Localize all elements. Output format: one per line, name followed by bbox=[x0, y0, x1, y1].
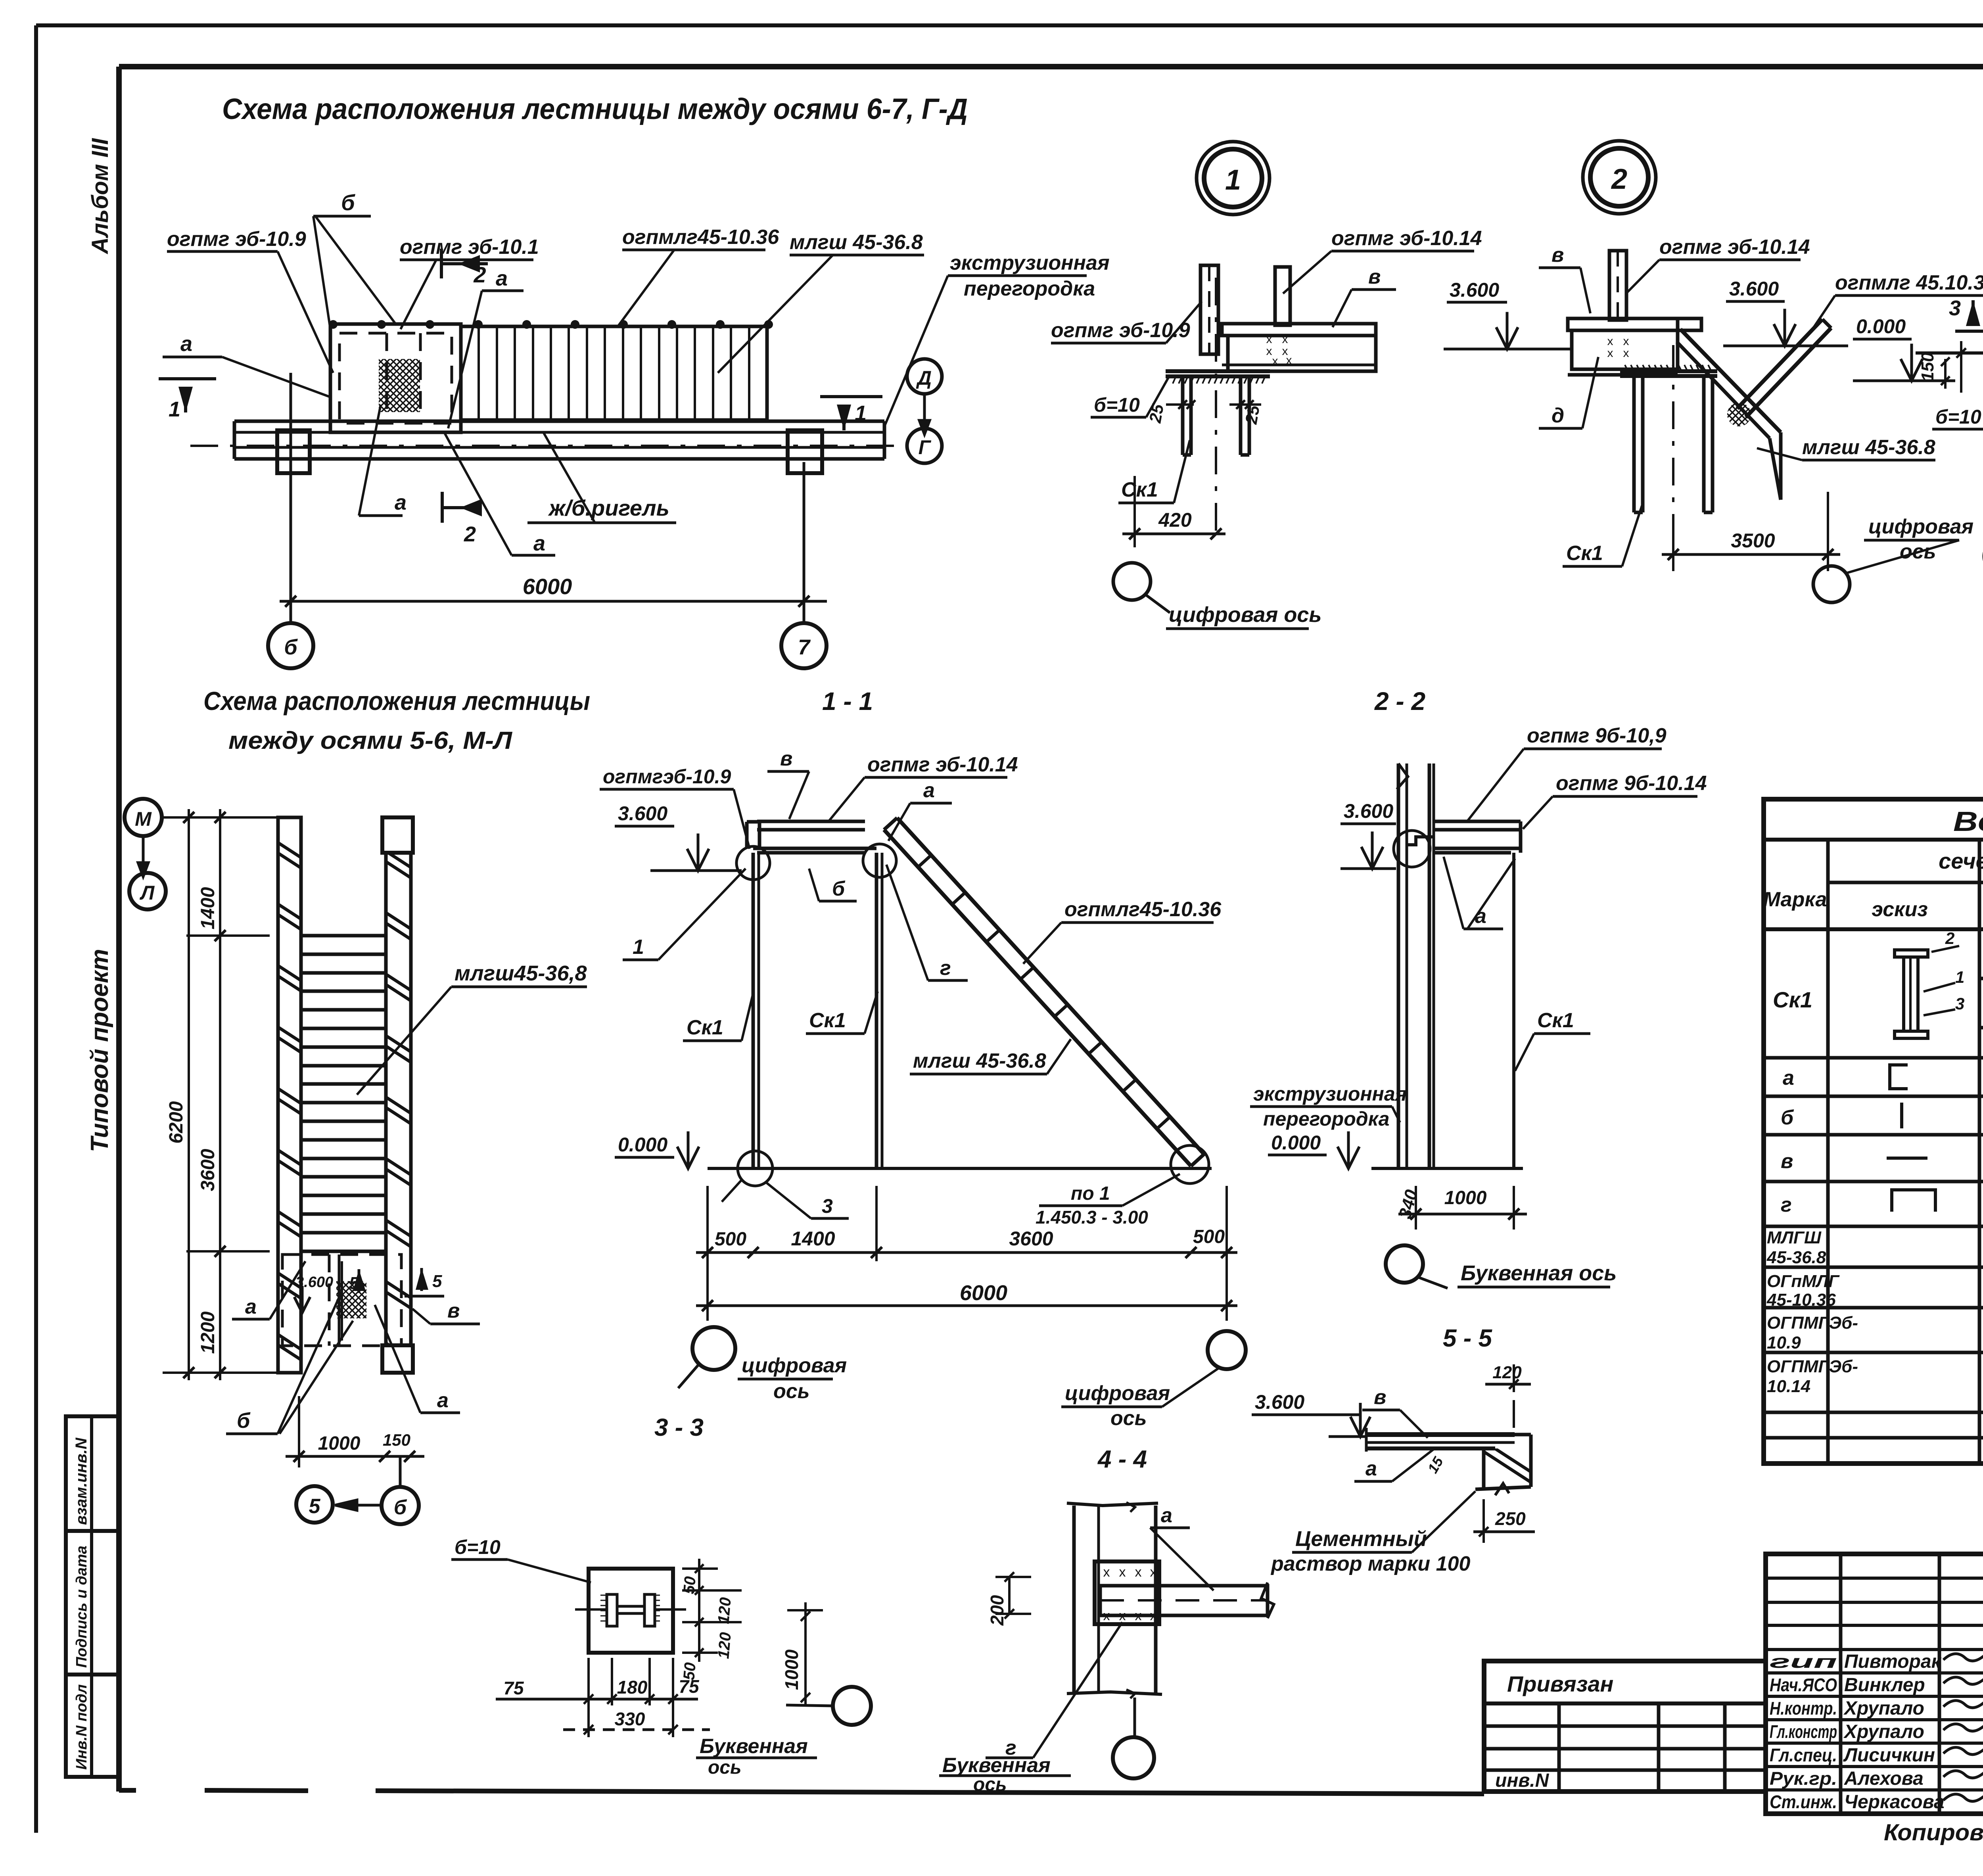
left plan: mini level 3.600 and mark 5 bbox=[294, 1269, 366, 1313]
svg-text:75: 75 bbox=[503, 1678, 524, 1698]
left plan: label b (bottom) bbox=[226, 1293, 353, 1434]
section 1-1: axis bubble left bbox=[678, 1327, 735, 1388]
svg-text:0.000: 0.000 bbox=[1856, 315, 1906, 338]
svg-text:Хрупало: Хрупало bbox=[1843, 1698, 1924, 1719]
plan 6-7: stair flight dashed box bbox=[330, 324, 461, 432]
section 2-2: dim 340/1000 bbox=[1395, 1186, 1527, 1230]
plan 6-7: label ogpmg eb-10.1 bbox=[400, 236, 539, 329]
svg-text:а: а bbox=[923, 779, 935, 802]
plan 6-7: cross-hatch patch bbox=[379, 359, 420, 412]
node 1: dim 420 bbox=[1122, 476, 1225, 547]
left plan: dim chain left (1400/3600/1200) bbox=[163, 809, 286, 1380]
svg-text:Лисичкин: Лисичкин bbox=[1843, 1745, 1935, 1766]
node 2: label mlgsh 45-36.8 bbox=[1757, 436, 1935, 460]
svg-text:в: в bbox=[780, 747, 792, 770]
svg-text:Н.контр.: Н.контр. bbox=[1770, 1698, 1837, 1719]
plan 6-7: axis line 7 bbox=[803, 462, 805, 623]
svg-text:между осями 5-6, М-Л: между осями 5-6, М-Л bbox=[228, 727, 512, 754]
node 2: label ogpmlg 45.10.36 bbox=[1812, 271, 1983, 329]
node 1: base plate bbox=[1166, 371, 1270, 384]
svg-text:огпмг эб-10.9: огпмг эб-10.9 bbox=[167, 228, 306, 251]
node 2: label ogpmg eb-10.14 bbox=[1626, 236, 1810, 293]
svg-text:б=10: б=10 bbox=[1094, 394, 1140, 416]
svg-text:перегородка: перегородка bbox=[1263, 1108, 1389, 1130]
svg-text:цифровая: цифровая bbox=[742, 1354, 847, 1377]
section 5-5: label a bbox=[1354, 1448, 1436, 1481]
section 1-1: label v bbox=[767, 747, 809, 819]
svg-text:цифровая ось: цифровая ось bbox=[1169, 603, 1321, 627]
node 2: beam bbox=[1568, 318, 1701, 375]
section 4-4: x marks on plate bbox=[1103, 1565, 1157, 1623]
svg-text:млгш 45-36.8: млгш 45-36.8 bbox=[913, 1049, 1046, 1072]
node 2: label tsifrovaya os bbox=[1846, 515, 1973, 573]
svg-text:Л: Л bbox=[140, 882, 155, 904]
svg-text:б: б bbox=[1781, 1106, 1794, 1129]
svg-text:x: x bbox=[1623, 347, 1629, 360]
svg-text:1 - 1: 1 - 1 bbox=[822, 687, 873, 715]
svg-text:1: 1 bbox=[855, 401, 867, 425]
left plan: cross-hatch patch bbox=[336, 1281, 366, 1318]
section 1-1: label po 1 bbox=[1036, 1174, 1180, 1228]
section 3-3: dim 1000 vertical with bubble bbox=[781, 1602, 871, 1725]
svg-text:1: 1 bbox=[1955, 968, 1964, 986]
section 1-1: label Sk1 right bbox=[806, 992, 878, 1034]
svg-text:10.14: 10.14 bbox=[1767, 1377, 1810, 1396]
svg-text:1.450.3 - 3.00: 1.450.3 - 3.00 bbox=[1036, 1207, 1148, 1228]
svg-text:x: x bbox=[1150, 1565, 1157, 1580]
svg-text:1: 1 bbox=[1225, 164, 1241, 196]
table vedomost: texts bbox=[1763, 806, 1983, 1396]
svg-text:180: 180 bbox=[617, 1677, 648, 1698]
svg-text:огпмг эб-10.1: огпмг эб-10.1 bbox=[400, 236, 539, 259]
svg-text:1: 1 bbox=[633, 936, 644, 959]
svg-text:экструзионная: экструзионная bbox=[1253, 1083, 1407, 1105]
node 2: label Sk1 bbox=[1563, 506, 1642, 566]
node 1: level 3.600 bbox=[1444, 279, 1571, 349]
svg-text:Ск1: Ск1 bbox=[809, 1009, 846, 1032]
node 2: vertical post bbox=[1609, 251, 1626, 320]
section 3-3: bolt symbol bbox=[575, 1594, 686, 1626]
svg-text:2: 2 bbox=[1611, 163, 1627, 195]
svg-text:Г: Г bbox=[919, 436, 932, 458]
svg-text:250: 250 bbox=[1495, 1508, 1526, 1529]
node 2: centerline bbox=[1672, 345, 1674, 564]
plan 6-7: left column block bbox=[277, 430, 310, 473]
section 1-1: label 3 bbox=[765, 1182, 849, 1218]
svg-text:Альбом III: Альбом III bbox=[87, 138, 113, 255]
svg-text:а: а bbox=[533, 531, 545, 555]
svg-text:x: x bbox=[1286, 354, 1292, 367]
svg-text:2: 2 bbox=[473, 262, 486, 287]
svg-text:x: x bbox=[1607, 335, 1613, 348]
svg-text:б: б bbox=[394, 1496, 407, 1519]
svg-text:x: x bbox=[1135, 1565, 1142, 1580]
svg-text:x: x bbox=[1282, 333, 1288, 346]
plan 6-7: axis circle Д bbox=[907, 359, 942, 434]
section 1-1: dim chain 500/1400/3600/500 bbox=[696, 1186, 1237, 1321]
section 5-5: level 3.600 bbox=[1252, 1391, 1370, 1437]
section 5-5: dim 250 bbox=[1473, 1499, 1535, 1543]
node 1: dim 25 left bbox=[1145, 400, 1195, 425]
node 2: dim 150 bbox=[1918, 352, 1950, 389]
svg-text:3: 3 bbox=[822, 1195, 833, 1217]
svg-text:120: 120 bbox=[715, 1597, 735, 1625]
svg-text:3: 3 bbox=[1955, 994, 1964, 1013]
svg-text:б=10: б=10 bbox=[455, 1536, 501, 1558]
plan 6-7: label mlgsh 45-36.8 bbox=[718, 231, 924, 373]
svg-text:3.600: 3.600 bbox=[1450, 279, 1499, 301]
svg-text:1400: 1400 bbox=[198, 887, 219, 929]
section 1-1: level 0.000 bbox=[615, 1132, 699, 1169]
node 2: section mark 3 right bbox=[1949, 296, 1983, 331]
svg-text:3.600: 3.600 bbox=[1344, 800, 1393, 822]
node 2: stair stringer diagonal up bbox=[1737, 319, 1831, 417]
section 1-1: label ogpmlg45-10.36 bbox=[1023, 898, 1222, 964]
plan 6-7: section mark 1 right bbox=[820, 397, 882, 430]
svg-text:5 - 5: 5 - 5 bbox=[1443, 1325, 1493, 1352]
svg-text:Цементный: Цементный bbox=[1295, 1527, 1427, 1551]
svg-text:а: а bbox=[395, 491, 407, 514]
svg-text:эскиз: эскиз bbox=[1872, 898, 1928, 921]
svg-text:150: 150 bbox=[1918, 352, 1937, 382]
svg-text:1400: 1400 bbox=[791, 1228, 835, 1250]
svg-text:огпмг эб-10.14: огпмг эб-10.14 bbox=[1331, 227, 1482, 250]
svg-text:а: а bbox=[1783, 1067, 1794, 1090]
section 2-2: label ogpmg 9b-10.9 bbox=[1467, 724, 1667, 821]
svg-text:3500: 3500 bbox=[1731, 529, 1775, 552]
section 5-5: dim 120 top bbox=[1485, 1363, 1531, 1428]
section 2-2: hanger rod Sk1 bbox=[1512, 853, 1515, 1168]
plan 6-7: label a upper bbox=[448, 267, 524, 428]
left plan: axis bubble 6 bbox=[335, 1456, 419, 1524]
svg-text:Буквенная: Буквенная bbox=[942, 1754, 1051, 1777]
section 1-1: base circle diag bbox=[1171, 1145, 1209, 1184]
svg-text:3: 3 bbox=[1949, 296, 1961, 320]
svg-text:45-36.8: 45-36.8 bbox=[1766, 1248, 1826, 1267]
svg-text:1200: 1200 bbox=[198, 1311, 219, 1354]
node 2: level 3.600 bbox=[1723, 278, 1848, 346]
svg-text:6000: 6000 bbox=[960, 1281, 1007, 1305]
svg-text:50: 50 bbox=[680, 1576, 699, 1595]
svg-text:Винклер: Винклер bbox=[1844, 1675, 1925, 1696]
left plan: section mark 5 right bbox=[405, 1268, 444, 1296]
left plan: landing dashed box bbox=[282, 1255, 401, 1346]
node 2: label d bbox=[1539, 357, 1598, 428]
plan 6-7: label a left bbox=[163, 332, 329, 397]
svg-text:3600: 3600 bbox=[198, 1149, 219, 1191]
left plan: right wall top block bbox=[382, 817, 413, 853]
svg-text:Гл.констр: Гл.констр bbox=[1770, 1721, 1837, 1742]
section 5-5: wall below bbox=[1475, 1435, 1531, 1495]
svg-text:Ск1: Ск1 bbox=[1773, 987, 1812, 1012]
svg-text:120: 120 bbox=[715, 1632, 735, 1659]
svg-text:x: x bbox=[1103, 1565, 1110, 1580]
section 3-3: label b=10 bbox=[451, 1536, 591, 1583]
svg-text:Ст.инж.: Ст.инж. bbox=[1770, 1792, 1837, 1812]
node 2: axis bubble bbox=[1813, 566, 1850, 602]
node 1: x-marks on beam bbox=[1266, 333, 1292, 368]
svg-text:0.000: 0.000 bbox=[1271, 1132, 1321, 1154]
plan 6-7: axis bubble 6 bbox=[268, 623, 313, 668]
node 1: beam bbox=[1222, 324, 1376, 371]
svg-text:3.600: 3.600 bbox=[618, 802, 667, 825]
svg-text:огпмлг45-10.36: огпмлг45-10.36 bbox=[622, 226, 779, 249]
svg-text:огпмлг45-10.36: огпмлг45-10.36 bbox=[1064, 898, 1222, 921]
svg-text:2 - 2: 2 - 2 bbox=[1374, 687, 1425, 715]
svg-text:Подпись и дата: Подпись и дата bbox=[73, 1546, 90, 1668]
section 4-4: dim 200 bbox=[987, 1572, 1031, 1626]
section 1-1: label 1 bbox=[623, 869, 746, 960]
section 1-1: label mlgsh 45-36.8 bbox=[910, 1039, 1071, 1074]
plan 6-7: rebar beam (zh/b rigel) bbox=[234, 421, 884, 459]
svg-text:а: а bbox=[1365, 1457, 1377, 1480]
svg-text:огпмгэб-10.9: огпмгэб-10.9 bbox=[603, 765, 731, 788]
plan 6-7: label ogpmlg45-10.36 bbox=[619, 226, 779, 325]
title block: pryvyazan table bbox=[1484, 1661, 1766, 1792]
svg-text:Схема расположения лестницы: Схема расположения лестницы bbox=[203, 686, 590, 715]
node 2: column below bbox=[1620, 365, 1717, 512]
plan 6-7: section mark 2 upper bbox=[441, 249, 488, 287]
svg-text:500: 500 bbox=[1193, 1226, 1225, 1247]
svg-text:ось: ось bbox=[708, 1757, 742, 1778]
svg-text:Д: Д bbox=[916, 367, 932, 389]
plan 6-7: axis line 6 bbox=[290, 373, 292, 623]
svg-text:45-10.36: 45-10.36 bbox=[1766, 1290, 1836, 1310]
node 3: label b=10 bbox=[1932, 373, 1983, 429]
section 2-2: bracket beam bbox=[1407, 821, 1521, 853]
node 1: detail bubble bbox=[1197, 142, 1270, 215]
section 1-1: label a bbox=[888, 779, 952, 841]
plan 6-7: label ogpmg eb-10.9 bbox=[167, 228, 333, 373]
left plan: axis bubble L bbox=[129, 873, 166, 909]
plan 6-7: section mark 2 lower bbox=[442, 492, 482, 546]
node 1: label Sk1 bbox=[1118, 440, 1190, 503]
node 1: centerline bbox=[1215, 278, 1217, 535]
section 1-1: label b with check bbox=[809, 869, 857, 901]
svg-text:Черкасова: Черкасова bbox=[1844, 1792, 1945, 1813]
svg-text:50: 50 bbox=[680, 1662, 699, 1681]
svg-text:1: 1 bbox=[169, 397, 180, 421]
svg-text:в: в bbox=[1374, 1386, 1386, 1409]
svg-text:б: б bbox=[237, 1409, 251, 1433]
svg-text:4 - 4: 4 - 4 bbox=[1097, 1446, 1147, 1473]
svg-text:Хрупало: Хрупало bbox=[1843, 1721, 1924, 1742]
section 1-1: top beam bbox=[747, 821, 876, 853]
plan 6-7: label a lower right bbox=[444, 432, 555, 555]
svg-text:взам.инв.N: взам.инв.N bbox=[73, 1437, 90, 1525]
section 2-2: label ogpmg 9b-10.14 bbox=[1523, 772, 1707, 829]
section 3-3: label bukvennaya os bbox=[696, 1735, 817, 1778]
section 1-1: label ogpmgeb-10.9 bbox=[600, 765, 750, 849]
svg-text:Нач.ЯСО: Нач.ЯСО bbox=[1770, 1675, 1837, 1695]
svg-text:а: а bbox=[437, 1389, 449, 1412]
section 2-2: label a bbox=[1444, 857, 1515, 929]
left plan: axis bubble M bbox=[125, 799, 162, 877]
svg-text:7: 7 bbox=[798, 635, 811, 659]
section 2-2: wall bbox=[1397, 763, 1434, 1168]
svg-text:420: 420 bbox=[1158, 509, 1192, 531]
svg-text:цифровая: цифровая bbox=[1868, 515, 1973, 538]
svg-text:5: 5 bbox=[309, 1495, 321, 1518]
section 3-3: dims 75/180/330 bbox=[496, 1658, 710, 1737]
left plan: stair rungs bbox=[301, 936, 386, 1251]
left plan: label mlgsh45-36.8 bbox=[357, 961, 587, 1095]
plan 6-7: right column block bbox=[788, 430, 822, 473]
svg-text:Буквенная: Буквенная bbox=[700, 1735, 808, 1758]
svg-text:Ск1: Ск1 bbox=[1537, 1009, 1574, 1032]
left plan: label a mid bbox=[232, 1261, 305, 1319]
svg-text:0.000: 0.000 bbox=[618, 1134, 667, 1156]
svg-text:млгш 45-36.8: млгш 45-36.8 bbox=[790, 231, 923, 254]
svg-text:1000: 1000 bbox=[1444, 1187, 1487, 1208]
section 2-2: level 3.600 bbox=[1341, 800, 1396, 869]
svg-text:Пивторак: Пивторак bbox=[1844, 1651, 1942, 1672]
section 2-2: label extrusion partition + 0.000 bbox=[1250, 1083, 1407, 1168]
svg-text:ось: ось bbox=[1110, 1407, 1147, 1430]
svg-text:5: 5 bbox=[432, 1272, 442, 1291]
node 1: column below bbox=[1183, 376, 1249, 455]
svg-text:а: а bbox=[245, 1295, 257, 1318]
svg-text:перегородка: перегородка bbox=[964, 277, 1095, 300]
svg-text:3.600: 3.600 bbox=[1255, 1391, 1304, 1413]
section 2-2: label Sk1 bbox=[1515, 1009, 1590, 1071]
svg-text:млгш 45-36.8: млгш 45-36.8 bbox=[1802, 436, 1935, 459]
svg-text:ОГПМГЭб-: ОГПМГЭб- bbox=[1767, 1357, 1858, 1376]
node 1: label ogpmg eb-10.9 bbox=[1051, 301, 1202, 343]
node 1: label b=10 bbox=[1091, 375, 1170, 417]
svg-text:x: x bbox=[1266, 333, 1272, 346]
section 1-1: joint circle left bbox=[736, 846, 770, 880]
svg-text:120: 120 bbox=[1492, 1363, 1522, 1382]
svg-text:Марка: Марка bbox=[1763, 888, 1827, 911]
section 1-1: ground line bbox=[708, 1167, 1212, 1170]
svg-text:ж/б.ригель: ж/б.ригель bbox=[548, 495, 669, 520]
svg-text:ось: ось bbox=[773, 1380, 810, 1403]
svg-text:в: в bbox=[1781, 1150, 1793, 1173]
table vedomost elementov: grid bbox=[1764, 799, 1983, 1464]
left plan: axis bubble 5 bbox=[296, 1486, 333, 1523]
section 4-4: bolted plate bbox=[1095, 1561, 1159, 1624]
svg-text:6200: 6200 bbox=[166, 1101, 187, 1143]
svg-text:1000: 1000 bbox=[318, 1433, 361, 1454]
svg-text:500: 500 bbox=[715, 1229, 746, 1250]
svg-text:б: б bbox=[832, 877, 846, 900]
plan 6-7: section mark 1 left bbox=[159, 379, 216, 421]
svg-text:д: д bbox=[1551, 404, 1564, 427]
node 2: weld cluster bbox=[1727, 403, 1751, 426]
svg-text:ОГпМЛГ: ОГпМЛГ bbox=[1767, 1272, 1840, 1291]
section 3-3: dims 50/120 right bbox=[680, 1559, 742, 1681]
section 1-1: stair ladder diagonal bbox=[884, 818, 1204, 1166]
plan 6-7: label extrusion partition bbox=[884, 251, 1110, 426]
svg-text:6000: 6000 bbox=[523, 574, 572, 599]
svg-text:Алехова: Алехова bbox=[1844, 1768, 1924, 1789]
svg-text:МЛГШ: МЛГШ bbox=[1767, 1228, 1822, 1247]
svg-text:Копировал Волкова: Копировал Волкова bbox=[1884, 1820, 1983, 1845]
svg-text:экструзионная: экструзионная bbox=[950, 251, 1110, 274]
section 5-5: label v bbox=[1362, 1386, 1428, 1438]
section 2-2: ground line bbox=[1371, 1167, 1523, 1170]
svg-text:Ск1: Ск1 bbox=[1121, 478, 1158, 501]
svg-text:ось: ось bbox=[973, 1774, 1007, 1795]
section 4-4: label a bbox=[1150, 1504, 1214, 1590]
section 1-1: label tsifrovaya os right bbox=[1061, 1368, 1220, 1430]
node 2: dim 3500 bbox=[1662, 492, 1840, 571]
svg-text:в: в bbox=[1368, 265, 1381, 288]
svg-text:3 - 3: 3 - 3 bbox=[654, 1414, 704, 1441]
svg-text:1000: 1000 bbox=[781, 1649, 802, 1690]
section 2-2: axis bubble bbox=[1386, 1245, 1448, 1288]
svg-text:огпмг 9б-10,9: огпмг 9б-10,9 bbox=[1527, 724, 1667, 747]
section 4-4: column bbox=[1067, 1502, 1162, 1698]
svg-text:огпмг эб-10.14: огпмг эб-10.14 bbox=[1659, 236, 1810, 259]
section 1-1: level 3.600 bbox=[615, 802, 742, 871]
svg-text:x: x bbox=[1119, 1565, 1126, 1580]
node 2: detail bubble bbox=[1583, 141, 1656, 214]
svg-text:в: в bbox=[1551, 244, 1564, 267]
plan 6-7: label zh/b rigel bbox=[527, 432, 676, 523]
svg-text:а: а bbox=[1161, 1504, 1172, 1527]
svg-text:а: а bbox=[180, 332, 192, 356]
svg-text:цифровая: цифровая bbox=[1065, 1382, 1170, 1405]
node 1: vertical post right bbox=[1275, 267, 1290, 325]
svg-text:330: 330 bbox=[615, 1709, 645, 1729]
svg-text:x: x bbox=[1272, 355, 1278, 368]
svg-text:огпмг 9б-10.14: огпмг 9б-10.14 bbox=[1556, 772, 1707, 795]
left plan: label a (bottom right) bbox=[375, 1305, 460, 1413]
svg-text:Гл.спец.: Гл.спец. bbox=[1770, 1745, 1837, 1765]
svg-text:Схема расположения лестницы: Схема расположения лестницы между осями … bbox=[222, 92, 968, 125]
svg-text:x: x bbox=[1623, 335, 1629, 348]
node 1: label ogpmg eb-10.14 bbox=[1283, 227, 1482, 293]
svg-text:Ведомость элементов: Ведомость элементов bbox=[1953, 806, 1983, 837]
section 5-5: floor slab bbox=[1366, 1428, 1515, 1452]
plan 6-7: rung panel MLGSh bbox=[461, 326, 767, 420]
svg-text:2: 2 bbox=[1945, 929, 1954, 948]
section 4-4: label g + bukvennaya os bbox=[939, 1622, 1122, 1795]
margin boxes (взам.инв / подпись и дата / инв.подл) bbox=[66, 1416, 119, 1777]
node 2: label v bbox=[1539, 244, 1590, 313]
node 3: floor line left bbox=[1916, 341, 1983, 393]
section 1-1: label ogpmg eb-10.14 bbox=[829, 753, 1018, 821]
svg-text:150: 150 bbox=[383, 1431, 410, 1449]
svg-text:3600: 3600 bbox=[1009, 1228, 1053, 1250]
section 3-3: gusset plate square bbox=[589, 1569, 673, 1653]
svg-text:2: 2 bbox=[464, 522, 476, 546]
svg-text:Типовой проект: Типовой проект bbox=[86, 949, 113, 1152]
svg-text:ОГПМГЭб-: ОГПМГЭб- bbox=[1767, 1313, 1858, 1333]
svg-text:x: x bbox=[1607, 347, 1613, 360]
svg-text:сечение: сечение bbox=[1939, 848, 1983, 873]
svg-text:млгш45-36,8: млгш45-36,8 bbox=[455, 961, 587, 985]
node 1: label v bbox=[1333, 265, 1396, 327]
svg-text:Буквенная ось: Буквенная ось bbox=[1461, 1261, 1617, 1285]
section 2-2: label bukvennaya os bbox=[1458, 1261, 1617, 1287]
section 1-1: label g bbox=[886, 865, 968, 980]
svg-text:Инв.N подл: Инв.N подл bbox=[73, 1684, 90, 1770]
svg-text:огпмг эб-10.14: огпмг эб-10.14 bbox=[867, 753, 1018, 776]
plan 6-7: axis circle Г bbox=[907, 428, 942, 463]
node 1: axis bubble bbox=[1113, 563, 1170, 613]
svg-text:б: б bbox=[341, 190, 355, 215]
node 2: x-marks bbox=[1607, 335, 1629, 360]
svg-text:Рук.гр.: Рук.гр. bbox=[1770, 1768, 1837, 1789]
left plan: label v (bottom right) bbox=[412, 1299, 480, 1324]
section 1-1: right column Sk1 bbox=[876, 853, 882, 1168]
svg-text:гип: гип bbox=[1770, 1651, 1837, 1672]
section 1-1: label Sk1 left bbox=[683, 992, 754, 1041]
plan 6-7: beam centerline axis Г bbox=[190, 445, 908, 447]
